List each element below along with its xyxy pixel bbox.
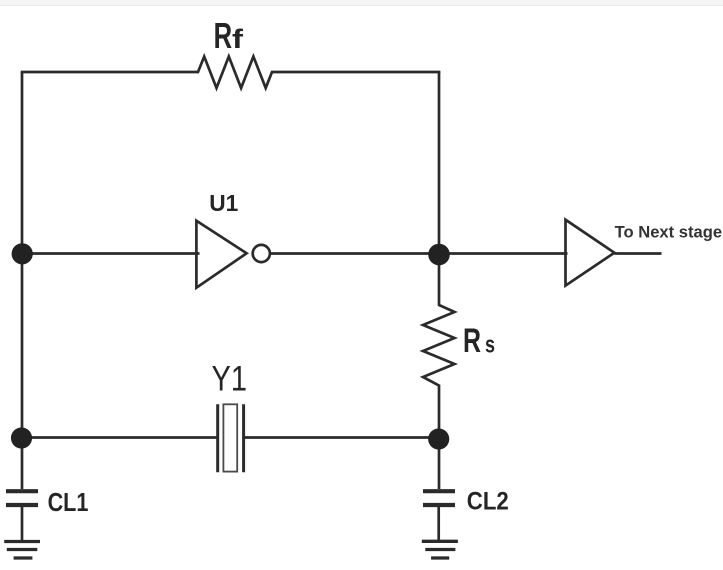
svg-text:U1: U1: [209, 190, 238, 216]
svg-text:CL1: CL1: [48, 489, 89, 517]
svg-text:R: R: [463, 322, 481, 360]
svg-text:f: f: [232, 24, 244, 54]
svg-text:CL2: CL2: [467, 488, 509, 516]
svg-text:R: R: [214, 15, 233, 56]
svg-text:To Next stage: To Next stage: [615, 223, 723, 241]
svg-text:s: s: [485, 331, 495, 358]
svg-text:Y1: Y1: [212, 359, 248, 399]
